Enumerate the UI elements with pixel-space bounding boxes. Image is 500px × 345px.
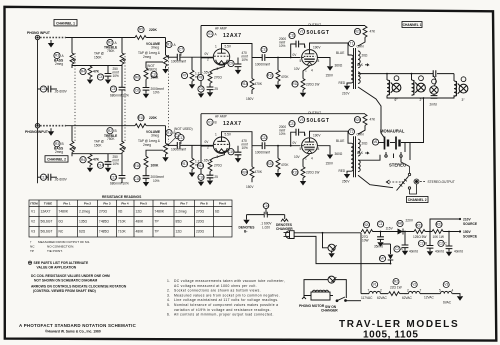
triode V1A channel 2 bbox=[201, 137, 230, 158]
output transformer T1 channel 2 bbox=[351, 136, 360, 177]
channel 1 boxed label channel 2 bbox=[45, 156, 68, 162]
svg-text:B: B bbox=[115, 129, 117, 133]
AC wire upper bbox=[295, 232, 362, 234]
svg-text:12VAC: 12VAC bbox=[424, 295, 435, 299]
capacitor C4 250mmf bbox=[97, 67, 119, 84]
svg-text:270Ω: 270Ω bbox=[99, 210, 108, 214]
svg-text:BLK: BLK bbox=[357, 151, 364, 155]
channel 1 boxed label right bbox=[402, 22, 422, 28]
svg-text:2: 2 bbox=[380, 289, 382, 293]
svg-text:270Ω: 270Ω bbox=[214, 76, 222, 80]
pilot lamp M4 bbox=[323, 233, 337, 253]
capacitor C6 2000mmf channel 2 bbox=[134, 167, 164, 186]
heater row end ground bbox=[457, 296, 463, 301]
wire monaural right leg bbox=[405, 143, 410, 161]
svg-text:12AX7: 12AX7 bbox=[223, 33, 242, 39]
svg-text:R1: R1 bbox=[167, 131, 171, 135]
capacitor C3 .05 600V bbox=[38, 86, 68, 94]
ground left bus channel 2 bbox=[198, 182, 204, 187]
power rail bbox=[361, 232, 458, 294]
svg-text:150V: 150V bbox=[326, 162, 334, 166]
svg-text:T1: T1 bbox=[350, 42, 354, 46]
phono motor M8 bbox=[302, 290, 333, 300]
svg-text:C21: C21 bbox=[289, 122, 295, 126]
svg-text:†480K: †480K bbox=[59, 210, 69, 214]
svg-text:MEASURED FROM OUTPUT OF M1.: MEASURED FROM OUTPUT OF M1. bbox=[38, 240, 90, 244]
svg-text:2.2meg: 2.2meg bbox=[176, 210, 187, 214]
screen wire 150V bbox=[317, 58, 334, 78]
wire to stereo jack bbox=[401, 157, 410, 166]
resistor R4 47K bbox=[80, 66, 100, 84]
svg-text:CHANNEL 2: CHANNEL 2 bbox=[408, 198, 427, 202]
capacitor C5 680mmf bbox=[110, 66, 129, 142]
svg-text:†485Ω: †485Ω bbox=[99, 230, 109, 234]
svg-text:270Ω: 270Ω bbox=[196, 210, 205, 214]
svg-text:V3: V3 bbox=[300, 118, 304, 122]
150V source tap bbox=[458, 230, 478, 238]
svg-text:190V: 190V bbox=[313, 46, 321, 50]
svg-text:10%: 10% bbox=[242, 58, 249, 62]
svg-text:C13: C13 bbox=[261, 48, 267, 52]
svg-text:B: B bbox=[215, 121, 217, 125]
wire top rail ch1 bbox=[66, 38, 166, 56]
svg-text:CHANNEL 1: CHANNEL 1 bbox=[56, 21, 75, 25]
svg-text:40mfd: 40mfd bbox=[435, 250, 444, 254]
svg-text:DC voltage measurements taken: DC voltage measurements taken with vacuu… bbox=[174, 279, 285, 283]
svg-text:-.65V: -.65V bbox=[202, 159, 210, 163]
svg-text:47K: 47K bbox=[93, 70, 100, 74]
svg-text:12AX7: 12AX7 bbox=[223, 121, 242, 127]
svg-text:V2: V2 bbox=[31, 220, 35, 224]
svg-text:(CONTROL VIEWED FROM SHAFT END: (CONTROL VIEWED FROM SHAFT END) bbox=[33, 289, 96, 293]
svg-text:2meg: 2meg bbox=[55, 62, 63, 66]
channel 2 boxed label right bbox=[407, 197, 429, 203]
svg-text:R20: R20 bbox=[267, 162, 273, 166]
svg-text:R3: R3 bbox=[55, 142, 59, 146]
plate wire V1A channel 2 bbox=[222, 132, 301, 149]
legend capacitor C14 .1 600V bbox=[247, 203, 285, 229]
resistor R20 27 ohm 10W bbox=[362, 222, 373, 243]
coupling cap C13 10000mmf bbox=[255, 46, 270, 66]
svg-text:680mmf 10%: 680mmf 10% bbox=[110, 94, 129, 98]
shielded lead dashes bbox=[40, 37, 66, 39]
capacitor C5 680mmf channel 2 bbox=[110, 154, 129, 186]
svg-text:RED: RED bbox=[339, 169, 346, 173]
svg-text:Pin 9: Pin 9 bbox=[219, 202, 227, 206]
resistor R22 10K 1W bbox=[432, 221, 444, 239]
speaker SP3 3 inch bbox=[454, 77, 468, 102]
rectifier M7 bias diode bbox=[379, 244, 393, 265]
filter C2A 40mfd bbox=[394, 231, 418, 256]
svg-text:2.2meg: 2.2meg bbox=[79, 210, 90, 214]
svg-text:V3: V3 bbox=[31, 230, 35, 234]
svg-text:360Ω: 360Ω bbox=[335, 152, 343, 156]
B+ rail channel 1 channel 2 bbox=[201, 113, 365, 115]
svg-text:220Ω: 220Ω bbox=[196, 230, 205, 234]
svg-text:0Ω: 0Ω bbox=[118, 210, 123, 214]
note see parts list bbox=[28, 261, 31, 264]
svg-text:R4: R4 bbox=[81, 158, 85, 162]
svg-text:R11: R11 bbox=[292, 82, 298, 86]
svg-text:T2: T2 bbox=[350, 130, 354, 134]
gang dashed link volume bbox=[168, 55, 170, 142]
wire T1 secondary to monaural bbox=[358, 87, 385, 138]
svg-text:10K 1W: 10K 1W bbox=[433, 235, 444, 239]
svg-text:TP: TP bbox=[30, 249, 34, 253]
svg-text:40mfd: 40mfd bbox=[409, 250, 418, 254]
svg-text:10000mmf: 10000mmf bbox=[171, 59, 186, 63]
control R1A VOLUME 3meg channel 2 bbox=[146, 130, 176, 162]
tweeter M3 with cap 2mfd bbox=[430, 79, 438, 98]
svg-text:ARROWS ON CONTROLS INDICATE CL: ARROWS ON CONTROLS INDICATE CLOCKWISE RO… bbox=[31, 285, 127, 289]
svg-text:†485Ω: †485Ω bbox=[99, 220, 109, 224]
svg-text:6.: 6. bbox=[167, 313, 171, 317]
svg-text:Line voltage maintained at 117: Line voltage maintained at 117 volts for… bbox=[174, 298, 279, 302]
svg-text:220K: 220K bbox=[149, 28, 158, 32]
svg-text:V1: V1 bbox=[208, 32, 212, 36]
wire jack ground drop bbox=[37, 40, 39, 127]
svg-text:Pin 7: Pin 7 bbox=[180, 202, 188, 206]
ground arrow below shield channel 2 bbox=[48, 128, 54, 136]
T1 designator channel 2 bbox=[349, 129, 365, 137]
svg-text:R20: R20 bbox=[364, 223, 370, 227]
svg-text:150V: 150V bbox=[246, 185, 254, 189]
resistor R5 220K bbox=[134, 26, 158, 39]
svg-text:5.5V: 5.5V bbox=[225, 45, 232, 49]
heater row wire bbox=[361, 294, 460, 296]
svg-text:2meg: 2meg bbox=[143, 143, 151, 147]
svg-text:R17: R17 bbox=[182, 162, 188, 166]
capacitor C4 250mmf channel 2 bbox=[97, 155, 119, 172]
T1 primary RED lead 210V channel 2 bbox=[339, 169, 352, 184]
svg-text:RED: RED bbox=[339, 81, 346, 85]
svg-text:R7: R7 bbox=[182, 74, 186, 78]
table row V1 bbox=[31, 210, 220, 214]
svg-text:OUTPUT: OUTPUT bbox=[308, 23, 321, 27]
svg-text:10000mmf: 10000mmf bbox=[171, 148, 186, 152]
svg-text:Pin 2: Pin 2 bbox=[84, 202, 92, 206]
svg-text:22Ω 1W: 22Ω 1W bbox=[390, 286, 402, 290]
svg-text:480K: 480K bbox=[136, 220, 145, 224]
cathode resistor R8 270 ohm channel 2 bbox=[197, 158, 222, 171]
svg-text:AC voltages measured at 1000 o: AC voltages measured at 1000 ohms per vo… bbox=[174, 284, 257, 288]
svg-text:6Ω: 6Ω bbox=[215, 210, 220, 214]
note arrows on controls bbox=[31, 285, 127, 294]
B+ rail channel 1 bbox=[201, 25, 365, 27]
wire T2 secondary lower to stereo jack channel 2 bbox=[358, 175, 393, 188]
svg-text:62Ω: 62Ω bbox=[79, 230, 86, 234]
svg-text:0Ω: 0Ω bbox=[59, 220, 64, 224]
svg-text:AF AMP: AF AMP bbox=[215, 27, 227, 31]
svg-text:6VAC: 6VAC bbox=[443, 301, 452, 305]
motor lamp M5 bbox=[328, 276, 336, 283]
not used C10 channel 2 bbox=[168, 127, 193, 145]
svg-text:R14: R14 bbox=[242, 82, 248, 86]
svg-text:NOT SHOWN ON SCHEMATIC DIAGRAM: NOT SHOWN ON SCHEMATIC DIAGRAM bbox=[34, 279, 98, 283]
triode V1A bbox=[201, 49, 230, 70]
svg-text:220Ω 1W: 220Ω 1W bbox=[306, 171, 319, 175]
table row V2 bbox=[31, 220, 205, 224]
svg-text:10%: 10% bbox=[113, 162, 120, 166]
output transformer T1 bbox=[351, 48, 360, 89]
svg-text:V1: V1 bbox=[373, 283, 377, 287]
svg-text:CHANGER: CHANGER bbox=[321, 309, 338, 313]
svg-text:3: 3 bbox=[217, 155, 219, 159]
svg-text:1: 1 bbox=[215, 133, 217, 137]
svg-text:220K: 220K bbox=[149, 116, 158, 120]
svg-text:115V: 115V bbox=[386, 227, 394, 231]
svg-text:750K: 750K bbox=[107, 49, 115, 53]
svg-text:47K: 47K bbox=[370, 118, 377, 122]
svg-text:C15: C15 bbox=[111, 175, 117, 179]
svg-text:100K: 100K bbox=[151, 164, 160, 168]
capacitor C7 10000mmf channel 2 bbox=[171, 135, 213, 152]
control R1A VOLUME 3meg bbox=[146, 41, 177, 73]
tube designator V1 A channel 2 bbox=[207, 119, 217, 125]
ground arrow below shield bbox=[48, 40, 54, 48]
svg-text:OUTPUT: OUTPUT bbox=[308, 111, 321, 115]
svg-text:7: 7 bbox=[420, 289, 422, 293]
svg-text:C18: C18 bbox=[198, 175, 204, 179]
svg-text:R19: R19 bbox=[292, 170, 298, 174]
svg-text:470K: 470K bbox=[255, 170, 263, 174]
svg-text:10000mmf: 10000mmf bbox=[255, 63, 270, 67]
resistor R7 1.2meg channel 2 bbox=[181, 145, 201, 177]
svg-text:V2: V2 bbox=[300, 30, 304, 34]
svg-text:3meg: 3meg bbox=[151, 134, 159, 138]
svg-text:CHANNEL 1: CHANNEL 1 bbox=[403, 23, 422, 27]
svg-text:2: 2 bbox=[207, 58, 209, 62]
AC wire lower to interlock bbox=[295, 236, 391, 263]
svg-text:40mfd: 40mfd bbox=[454, 250, 463, 254]
tube designator V1 A bbox=[207, 31, 218, 37]
svg-text:C8: C8 bbox=[199, 87, 203, 91]
svg-text:MONAURAL: MONAURAL bbox=[380, 129, 405, 134]
svg-text:V1: V1 bbox=[31, 210, 35, 214]
wire volume wiper to C7 bbox=[169, 56, 177, 58]
resistor R23 125 ohm 5W bbox=[413, 222, 426, 239]
svg-text:C5: C5 bbox=[111, 87, 115, 91]
capacitor C7 10000mmf bbox=[171, 46, 213, 63]
svg-text:50L6GT: 50L6GT bbox=[307, 118, 330, 124]
svg-text:Pin 5: Pin 5 bbox=[140, 202, 148, 206]
svg-text:680mmf 10%: 680mmf 10% bbox=[110, 182, 129, 186]
T1 designator bbox=[349, 41, 365, 49]
svg-text:150V: 150V bbox=[246, 97, 254, 101]
svg-text:Pin 4: Pin 4 bbox=[121, 202, 129, 206]
svg-text:†: † bbox=[30, 240, 32, 244]
channel 1 boxed label bbox=[54, 20, 77, 26]
monaural plug contacts bbox=[379, 137, 405, 153]
svg-text:50L6GT: 50L6GT bbox=[41, 220, 53, 224]
svg-text:12AX7: 12AX7 bbox=[41, 210, 51, 214]
svg-text:47K: 47K bbox=[370, 30, 377, 34]
svg-text:750K: 750K bbox=[107, 137, 115, 141]
svg-text:R18: R18 bbox=[198, 164, 204, 168]
svg-text:10%: 10% bbox=[279, 132, 286, 136]
resistor R21 47K feedback bbox=[354, 26, 376, 47]
wire tone network channel 2 bbox=[72, 154, 122, 162]
heater V3 bbox=[439, 282, 454, 305]
svg-text:B: B bbox=[425, 242, 427, 246]
grid cap C9 470mmf channel 2 bbox=[228, 139, 248, 162]
phono input jack J1 bbox=[35, 35, 39, 39]
svg-text:Pin 8: Pin 8 bbox=[200, 202, 208, 206]
svg-text:NC: NC bbox=[59, 230, 64, 234]
svg-text:C19: C19 bbox=[228, 150, 234, 154]
cathode bypass C8 .25 bbox=[198, 83, 218, 97]
resistor R2 22 ohm 1W bbox=[389, 279, 413, 300]
svg-text:210V: 210V bbox=[342, 92, 350, 96]
cathode bypass C8 .25 channel 2 bbox=[198, 171, 218, 185]
stereo output jack M2 bbox=[386, 167, 426, 195]
not used C10 bbox=[147, 64, 157, 78]
svg-text:35mfd: 35mfd bbox=[374, 245, 383, 249]
svg-text:M7: M7 bbox=[380, 257, 385, 261]
stereo switch contacts bbox=[385, 152, 402, 158]
svg-text:Pin 3: Pin 3 bbox=[103, 202, 111, 206]
svg-text:50L6GT: 50L6GT bbox=[41, 230, 53, 234]
switch SW on changer bbox=[336, 297, 361, 302]
wire top rail ch1 channel 2 bbox=[66, 126, 166, 144]
svg-text:R5: R5 bbox=[139, 28, 143, 32]
grid resistor R10 470K bbox=[267, 57, 289, 90]
svg-text:-.55V: -.55V bbox=[202, 71, 210, 75]
wire T2 secondary upper to switch channel 2 bbox=[358, 155, 380, 161]
plate wire V1A bbox=[222, 44, 301, 61]
svg-text:5: 5 bbox=[300, 59, 302, 63]
legend denotes changer bbox=[276, 219, 293, 231]
svg-text:270Ω: 270Ω bbox=[214, 164, 222, 168]
jack M1 bbox=[372, 139, 378, 145]
svg-text:CHANGER: CHANGER bbox=[276, 227, 293, 231]
svg-text:R2: R2 bbox=[108, 41, 112, 45]
svg-text:SOURCE: SOURCE bbox=[463, 222, 478, 226]
svg-text:135Ω: 135Ω bbox=[79, 220, 88, 224]
svg-text:360Ω: 360Ω bbox=[335, 64, 343, 68]
svg-text:C2: C2 bbox=[439, 242, 443, 246]
filter C2B 40mfd bbox=[418, 232, 444, 256]
table grid bbox=[29, 200, 232, 237]
T1 primary RED lead 210V bbox=[339, 81, 352, 96]
phono motor loop bbox=[304, 280, 346, 298]
svg-text:All controls at minimum, prop: All controls at minimum, proper output l… bbox=[174, 313, 274, 317]
heater V1 bbox=[361, 282, 388, 300]
svg-text:SEE PARTS LIST FOR ALTERNATE: SEE PARTS LIST FOR ALTERNATE bbox=[34, 261, 89, 265]
capacitor C6 2000mmf bbox=[134, 79, 164, 98]
svg-text:TUBE: TUBE bbox=[44, 202, 52, 206]
svg-text:SOURCE: SOURCE bbox=[463, 234, 478, 238]
svg-text:10000mmf: 10000mmf bbox=[255, 151, 270, 155]
svg-text:BLUE: BLUE bbox=[336, 51, 344, 55]
svg-text:Socket connections are shown a: Socket connections are shown as bottom v… bbox=[174, 289, 261, 293]
svg-text:L.020: L.020 bbox=[262, 225, 270, 229]
svg-text:V1: V1 bbox=[208, 120, 212, 124]
svg-text:220V: 220V bbox=[406, 219, 414, 223]
pin and voltage labels V2 bbox=[293, 45, 322, 73]
svg-text:5: 5 bbox=[439, 289, 441, 293]
shielded lead dashes channel 2 bbox=[40, 125, 66, 127]
210V source tap bbox=[429, 218, 478, 233]
wire jack ground drop channel 2 bbox=[37, 128, 39, 183]
svg-text:C17: C17 bbox=[178, 136, 184, 140]
plate wire to T1 BLUE channel 2 bbox=[310, 131, 352, 143]
svg-text:10%: 10% bbox=[279, 44, 286, 48]
cathode resistor R11 220 ohm 1W channel 2 bbox=[292, 154, 319, 185]
svg-text:.25: .25 bbox=[214, 87, 219, 91]
svg-text:R2: R2 bbox=[108, 129, 112, 133]
svg-text:117VAC: 117VAC bbox=[361, 296, 373, 300]
svg-text:B-: B- bbox=[244, 229, 247, 233]
svg-text:AF AMP: AF AMP bbox=[215, 115, 227, 119]
svg-text:1005, 1105: 1005, 1105 bbox=[363, 330, 419, 341]
speaker bottom rail bbox=[387, 95, 454, 142]
svg-text:150K: 150K bbox=[94, 56, 102, 60]
cathode resistor R8 270 ohm bbox=[197, 70, 222, 83]
svg-text:R6: R6 bbox=[135, 76, 139, 80]
numbered notes bbox=[167, 279, 285, 317]
svg-text:Pin 1: Pin 1 bbox=[63, 202, 71, 206]
svg-text:B: B bbox=[62, 142, 64, 146]
svg-text:R8: R8 bbox=[198, 76, 202, 80]
speaker SP2 2 inch bbox=[412, 76, 426, 102]
svg-text:220Ω: 220Ω bbox=[196, 220, 205, 224]
beam tube V2 50L6GT channel 2 bbox=[302, 138, 318, 154]
svg-text:10W: 10W bbox=[362, 239, 369, 243]
svg-text:ITEM: ITEM bbox=[30, 202, 38, 206]
note dc coil resistance bbox=[31, 274, 110, 283]
svg-text:62VAC: 62VAC bbox=[377, 296, 388, 300]
svg-text:C22: C22 bbox=[261, 136, 267, 140]
resistor R6 100K channel 2 bbox=[134, 150, 163, 169]
legend denotes B- bbox=[239, 220, 256, 234]
svg-text:NC: NC bbox=[30, 245, 35, 249]
grid coupling C11 2000mmf bbox=[279, 32, 305, 58]
svg-text:150V: 150V bbox=[326, 74, 334, 78]
svg-text:C2: C2 bbox=[419, 242, 423, 246]
svg-text:®Howard W. Sams & Co., Inc. 19: ®Howard W. Sams & Co., Inc. 1960 bbox=[45, 330, 101, 334]
svg-text:BLK: BLK bbox=[357, 63, 364, 67]
svg-text:R24: R24 bbox=[242, 170, 248, 174]
plate load R14 470K channel 2 bbox=[241, 148, 262, 189]
svg-text:C16: C16 bbox=[134, 177, 140, 181]
phono input jack J1 channel 2 bbox=[35, 124, 39, 128]
svg-text:470K: 470K bbox=[281, 163, 289, 167]
svg-text:C1: C1 bbox=[378, 222, 382, 226]
svg-text:R25: R25 bbox=[355, 118, 361, 122]
grid coupling C11 2000mmf channel 2 bbox=[279, 121, 305, 147]
svg-text:.05 600V: .05 600V bbox=[54, 90, 68, 94]
svg-text:PHONO MOTOR: PHONO MOTOR bbox=[299, 304, 325, 308]
resistor R21 47K feedback channel 2 bbox=[354, 114, 376, 135]
svg-text:125Ω 5W: 125Ω 5W bbox=[413, 235, 426, 239]
svg-text:250V: 250V bbox=[342, 180, 350, 184]
svg-text:Measured values are from socke: Measured values are from socket pin to c… bbox=[174, 293, 280, 297]
svg-text:M6: M6 bbox=[398, 222, 403, 226]
speaker SP1 6 inch bbox=[387, 76, 401, 102]
table row V3 bbox=[31, 230, 205, 234]
resistor R6 100K bbox=[134, 62, 163, 81]
svg-text:1: 1 bbox=[215, 45, 217, 49]
svg-text:62VAC: 62VAC bbox=[402, 296, 413, 300]
svg-text:12Ω: 12Ω bbox=[136, 210, 143, 214]
svg-text:2: 2 bbox=[407, 289, 409, 293]
resistor R4 47K channel 2 bbox=[80, 154, 100, 172]
svg-text:variation of ±19% in voltage a: variation of ±19% in voltage and resista… bbox=[174, 308, 271, 312]
svg-text:CHANNEL 2: CHANNEL 2 bbox=[47, 158, 66, 162]
svg-text:V3: V3 bbox=[444, 283, 448, 287]
svg-text:5.: 5. bbox=[167, 303, 171, 307]
